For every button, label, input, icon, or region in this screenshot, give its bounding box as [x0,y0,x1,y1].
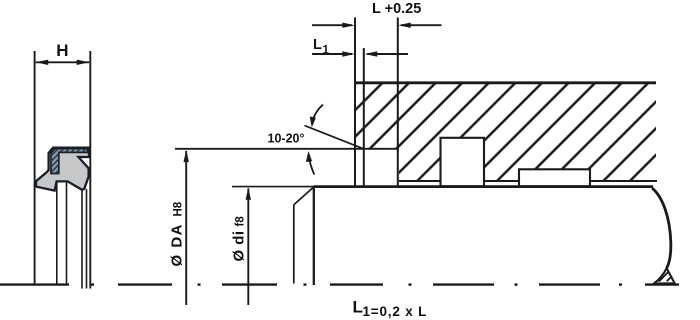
housing hatched section [354,83,656,182]
ring block on shaft (shallow) [519,169,590,186]
H extension line left [34,51,36,285]
housing left face / extension line of L [354,18,356,187]
dimension DA arrowhead [184,150,189,163]
seal rubber body [36,148,89,191]
dimension L +0.25 right line [401,24,442,26]
H arrowhead left [36,60,49,65]
chamfer construction line 10-20deg [305,126,364,149]
svg-text:f8: f8 [235,216,247,227]
seal edge line c [81,191,83,289]
seal metal case hatch [51,149,88,174]
svg-text:Ø di: Ø di [231,231,248,262]
svg-text:L +0.25: L +0.25 [372,1,421,17]
H extension line right [89,51,91,289]
housing bore line (small bore over shaft) [399,180,657,182]
seal metal case [51,149,88,174]
svg-text:L: L [313,37,322,53]
svg-text:10-20°: 10-20° [268,131,305,145]
svg-text:H: H [56,41,68,60]
dimension L1 right line [367,53,408,55]
shaft chamfer [294,187,314,205]
dimension di arrowhead [246,187,251,200]
dimension L1 left arrowhead [342,51,355,56]
shaft diameter extension line [232,186,314,188]
angle arrow upper [312,105,324,125]
H arrowhead right [77,60,90,65]
groove shoulder / extension line of L right [397,18,399,187]
dimension L +0.25 left line [312,24,352,26]
housing top edge [354,81,656,84]
dimension L1 right arrowhead [365,51,378,56]
H dimension line [36,61,89,63]
dimension DA label [169,201,186,266]
angle arrow lower [309,154,315,175]
svg-text:1=0,2 x L: 1=0,2 x L [363,304,428,319]
seal edge line b [66,183,68,286]
shaft chamfer edge [313,188,315,286]
seal edge line d [86,189,88,289]
dimension L +0.25 left arrowhead [342,23,355,28]
shaft rounded end [652,188,671,268]
seal edge line a [56,183,58,286]
shaft end face [293,205,295,284]
shaft end break bell [654,268,675,283]
shaft end break hatch [659,272,669,282]
shaft top surface [314,185,654,188]
svg-text:Ø DA: Ø DA [169,223,186,267]
centerline [0,283,679,285]
ring block on shaft (tall) [441,138,485,187]
svg-text:L: L [353,298,363,317]
dimension DA line [185,151,187,305]
bore DA line with extension [175,148,399,150]
extension line of L1 [363,48,365,187]
svg-text:H8: H8 [173,201,185,216]
dimension L +0.25 right arrowhead [398,23,411,28]
dimension L1 left line [312,53,352,55]
dimension di label [231,216,248,262]
dimension di line [247,189,249,306]
